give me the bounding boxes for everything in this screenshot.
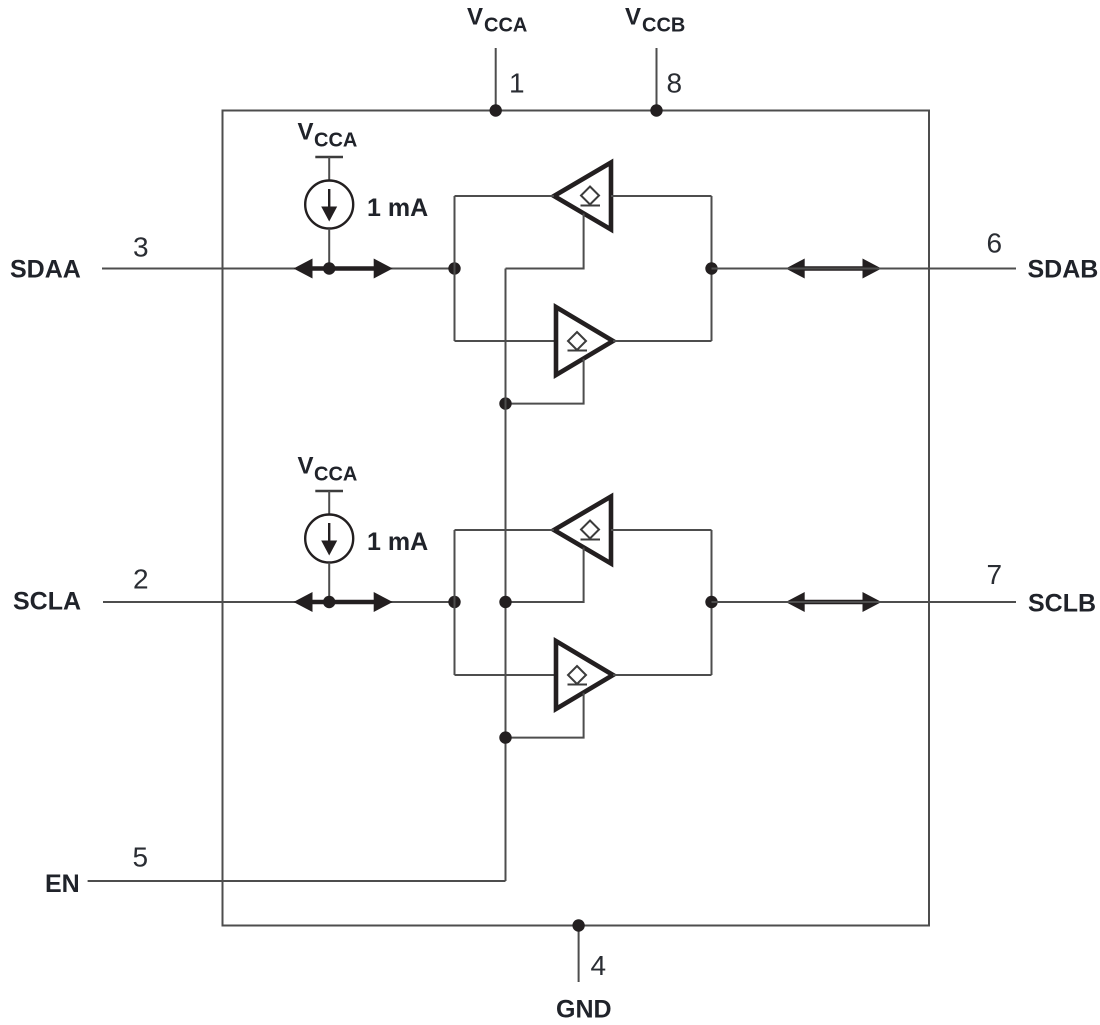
bidirectional arrow SCLA — [294, 592, 393, 612]
open-drain symbol U2 — [568, 332, 588, 351]
device boundary box — [223, 111, 930, 926]
svg-text:3: 3 — [133, 232, 149, 263]
current source I2 supply bar — [315, 490, 343, 492]
svg-text:8: 8 — [667, 68, 683, 99]
wire SDAA lead — [102, 268, 455, 270]
svg-text:4: 4 — [591, 950, 607, 981]
svg-text:V: V — [625, 4, 641, 31]
junction dot EN/U3 stub — [499, 596, 511, 608]
bidirectional arrow SDAB — [786, 259, 882, 279]
current source I2 (1 mA) — [305, 515, 353, 563]
open-drain symbol U1 — [581, 187, 601, 206]
wire U1 output left — [455, 195, 555, 197]
buffer U1 (SDA B-to-A, points left) — [554, 163, 611, 230]
wire U4 enable stub — [506, 693, 584, 738]
svg-text:SCLA: SCLA — [13, 588, 81, 616]
svg-text:V: V — [467, 4, 483, 31]
wire U2 output right — [613, 340, 712, 342]
wire to U1 input — [611, 195, 712, 197]
wire U3 enable stub — [506, 548, 584, 603]
wire to U3 input — [611, 529, 712, 531]
svg-text:V: V — [298, 119, 314, 146]
wire I2 to SCLA net — [328, 563, 330, 603]
svg-text:SDAA: SDAA — [10, 256, 81, 284]
buffer U4 (SCL A-to-B, points right) — [556, 641, 613, 709]
wire to U2 input — [455, 340, 557, 342]
wire SCLB lead — [712, 601, 1017, 603]
svg-text:7: 7 — [987, 559, 1003, 590]
net EN vertical wire — [505, 269, 507, 882]
wire U2 enable stub — [506, 359, 584, 404]
buffer U2 (SDA A-to-B, points right) — [556, 307, 613, 375]
junction dot SCLB node — [705, 596, 717, 608]
junction dot pin 8 — [650, 104, 662, 116]
wire U4 output right — [613, 674, 712, 676]
svg-text:V: V — [298, 453, 314, 480]
pin 1 lead wire (VCCA) — [495, 48, 497, 111]
junction dot pin 4 — [572, 919, 584, 931]
wire EN lead — [88, 880, 506, 882]
current source I1 VCCA supply label — [298, 119, 358, 152]
svg-text:GND: GND — [556, 996, 612, 1024]
svg-text:1 mA: 1 mA — [367, 194, 428, 222]
wire I1 to SDAA net — [328, 229, 330, 269]
junction dot I2/SCLA — [323, 596, 335, 608]
wire U3 output left — [455, 529, 555, 531]
wire supply bar to I2 — [328, 491, 330, 515]
pin 4 lead wire (GND) — [578, 926, 580, 983]
junction dot pin 1 — [490, 104, 502, 116]
buffer U3 (SCL B-to-A, points left) — [554, 497, 611, 564]
svg-text:CCA: CCA — [484, 15, 527, 37]
wire left loop vertical (SCL) — [454, 530, 456, 675]
svg-text:2: 2 — [133, 564, 149, 595]
junction dot EN/U2 stub — [499, 397, 511, 409]
svg-text:SDAB: SDAB — [1028, 256, 1099, 284]
wire left loop vertical (SDA) — [454, 196, 456, 341]
svg-text:CCA: CCA — [314, 130, 357, 152]
wire supply bar to I1 — [328, 157, 330, 181]
current source I2 VCCA supply label — [298, 453, 358, 486]
pin 8 lead wire (VCCB) — [656, 48, 658, 111]
open-drain symbol U3 — [581, 521, 601, 540]
wire SDAB lead — [712, 268, 1017, 270]
svg-text:5: 5 — [133, 842, 149, 873]
bidirectional arrow SCLB — [786, 592, 882, 612]
junction dot SDAB node — [705, 262, 717, 274]
net VCCA label (top) — [467, 4, 527, 37]
svg-text:CCA: CCA — [314, 464, 357, 486]
junction dot I1/SDAA — [323, 262, 335, 274]
current source I1 (1 mA) — [305, 181, 353, 229]
wire to U4 input — [455, 674, 557, 676]
wire U1 enable stub — [506, 214, 584, 269]
svg-text:6: 6 — [987, 228, 1003, 259]
svg-text:EN: EN — [45, 870, 80, 898]
junction dot SCLA node — [448, 596, 460, 608]
svg-text:1 mA: 1 mA — [367, 528, 428, 556]
junction dot SDAA node — [448, 262, 460, 274]
net VCCB label (top) — [625, 4, 685, 37]
wire SCLA lead — [103, 601, 455, 603]
bidirectional arrow SDAA — [294, 259, 393, 279]
wire right loop vertical (SCL) — [711, 530, 713, 675]
wire right loop vertical (SDA) — [711, 196, 713, 341]
open-drain symbol U4 — [568, 666, 588, 685]
svg-text:SCLB: SCLB — [1028, 590, 1096, 618]
current source I1 supply bar — [315, 156, 343, 158]
junction dot EN/U4 stub — [499, 731, 511, 743]
svg-text:CCB: CCB — [642, 15, 685, 37]
svg-text:1: 1 — [509, 68, 525, 99]
